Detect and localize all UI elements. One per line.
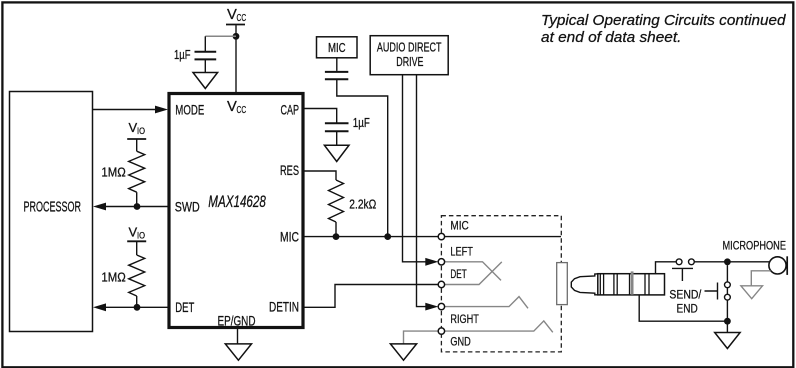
svg-text:SEND/: SEND/ — [669, 288, 701, 302]
jack socket sleeve — [557, 263, 568, 305]
svg-text:V: V — [227, 7, 237, 23]
svg-text:1MΩ: 1MΩ — [101, 165, 126, 180]
node DET/R2 — [134, 304, 141, 311]
node top junction — [724, 258, 731, 265]
node GND pin circle — [438, 328, 444, 334]
svg-text:1MΩ: 1MΩ — [101, 270, 126, 285]
wire ADD left output — [403, 75, 427, 262]
node R3/MIC — [333, 233, 340, 240]
svg-text:DET: DET — [450, 267, 467, 281]
svg-text:END: END — [677, 302, 698, 316]
switch actuator side — [705, 283, 718, 300]
node bottom junction — [724, 318, 731, 325]
power VCC symbol — [226, 7, 247, 25]
plug body — [598, 274, 665, 295]
pin label VCC inside — [227, 99, 247, 116]
plug gray band — [631, 271, 634, 294]
arrow into RIGHT — [425, 303, 438, 311]
PROCESSOR box — [10, 92, 93, 332]
wire ADD right output — [417, 75, 427, 307]
power VIO 1 — [127, 120, 146, 139]
svg-text:AUDIO DIRECT: AUDIO DIRECT — [377, 41, 442, 55]
wire MIC net — [303, 236, 438, 238]
svg-text:CAP: CAP — [281, 102, 300, 118]
arrow into LEFT — [425, 258, 438, 266]
wire RIGHT stub gray — [445, 297, 528, 309]
svg-text:V: V — [227, 99, 237, 115]
op IC U1 MAX14628 box — [169, 94, 303, 328]
wire CAP pin — [303, 109, 337, 123]
resistor R3 2.2k — [329, 180, 344, 222]
arrow into PROCESSOR (SWD) — [93, 203, 106, 211]
node SWD/R1 — [134, 203, 141, 210]
switch vertical contacts — [725, 265, 731, 318]
title note text — [541, 12, 786, 46]
node DET pin circle — [438, 281, 444, 287]
wire DET — [104, 306, 169, 308]
svg-text:MIC: MIC — [450, 219, 468, 233]
wire MIC inside connector — [445, 236, 562, 238]
node C2/MIC — [384, 233, 391, 240]
svg-text:RES: RES — [280, 162, 299, 178]
svg-text:MAX14628: MAX14628 — [208, 193, 265, 211]
plug ring lines — [600, 274, 649, 295]
svg-text:MIC: MIC — [280, 228, 299, 244]
wire plug top to switch — [656, 262, 676, 274]
svg-text:DET: DET — [175, 299, 194, 315]
svg-text:DRIVE: DRIVE — [396, 55, 423, 69]
wire VCC vertical — [235, 25, 237, 93]
wire gray to C1 — [205, 35, 236, 37]
wire DET stub gray — [445, 262, 502, 285]
arrow into PROCESSOR (DET) — [93, 303, 106, 311]
capacitor C3 1uF — [325, 115, 370, 145]
label SEND/END — [669, 288, 701, 316]
AUDIO DIRECT DRIVE box — [370, 36, 448, 75]
switch contact circles top — [676, 259, 682, 265]
svg-text:2.2kΩ: 2.2kΩ — [349, 196, 376, 211]
svg-text:Typical Operating Circuits con: Typical Operating Circuits continued — [541, 12, 786, 29]
svg-text:RIGHT: RIGHT — [450, 312, 479, 326]
plug tip — [571, 274, 597, 295]
wire MODE — [93, 109, 157, 111]
wire C2 to MIC net — [337, 79, 388, 236]
switch actuator T — [672, 268, 693, 281]
svg-text:at end of data sheet.: at end of data sheet. — [541, 29, 681, 46]
capacitor C1 1uF — [174, 36, 216, 72]
svg-text:CC: CC — [237, 13, 247, 24]
svg-text:GND: GND — [450, 334, 470, 348]
power VIO 2 — [127, 225, 146, 242]
wire R3 to MIC net — [335, 222, 337, 237]
svg-text:DETIN: DETIN — [269, 299, 299, 315]
wire RES pin — [303, 171, 336, 180]
svg-text:CC: CC — [237, 105, 247, 116]
wire DETIN — [303, 285, 438, 308]
svg-text:EP/GND: EP/GND — [218, 313, 256, 329]
svg-text:IO: IO — [137, 230, 145, 240]
wire mic to ground gray — [751, 271, 770, 286]
svg-text:MICROPHONE: MICROPHONE — [723, 238, 787, 252]
node VCC junction — [233, 33, 240, 40]
wire SWD — [104, 206, 169, 208]
MIC source box — [317, 37, 358, 58]
node MIC pin circle — [438, 233, 444, 239]
wire GND to ground gray — [404, 331, 439, 344]
node LEFT pin circle — [438, 259, 444, 265]
ground under switch — [715, 321, 740, 348]
wire plug bottom net — [639, 295, 727, 321]
svg-text:1µF: 1µF — [353, 115, 370, 130]
node RIGHT pin circle — [438, 303, 444, 309]
svg-text:MIC: MIC — [328, 40, 346, 55]
ground EP/GND — [225, 328, 251, 361]
ground left of connector — [390, 344, 416, 360]
svg-text:1µF: 1µF — [174, 47, 191, 62]
wire GND stub gray — [445, 321, 553, 332]
wire LEFT stub gray — [445, 262, 501, 281]
ground under C1 — [193, 73, 218, 89]
svg-text:PROCESSOR: PROCESSOR — [24, 200, 82, 216]
ground under C3 — [324, 145, 349, 161]
resistor R1 1M — [101, 139, 144, 207]
capacitor C2 (mic coupling) — [325, 58, 348, 80]
svg-text:IO: IO — [137, 126, 145, 136]
svg-text:LEFT: LEFT — [450, 245, 473, 259]
arrow into MODE — [155, 106, 168, 114]
connector dashed box — [441, 216, 561, 352]
svg-text:SWD: SWD — [175, 199, 200, 215]
ground under microphone gray — [741, 286, 763, 299]
resistor R2 1M — [101, 241, 144, 307]
wire top net — [694, 261, 769, 263]
svg-text:MODE: MODE — [175, 102, 204, 118]
microphone symbol — [769, 256, 787, 275]
